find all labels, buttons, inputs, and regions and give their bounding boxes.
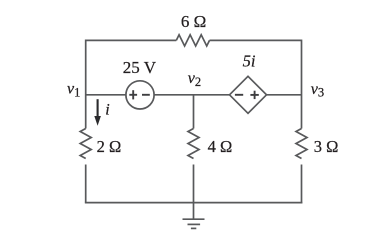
svg-text:v2: v2 [188,70,201,89]
svg-text:25 V: 25 V [123,58,157,77]
svg-text:6 Ω: 6 Ω [181,12,206,31]
svg-text:i: i [105,101,109,118]
svg-text:2 Ω: 2 Ω [97,137,122,156]
svg-text:5i: 5i [243,51,256,70]
svg-text:v3: v3 [311,81,324,100]
svg-text:4 Ω: 4 Ω [208,137,233,156]
svg-text:3 Ω: 3 Ω [314,137,339,156]
svg-text:v1: v1 [67,81,80,100]
